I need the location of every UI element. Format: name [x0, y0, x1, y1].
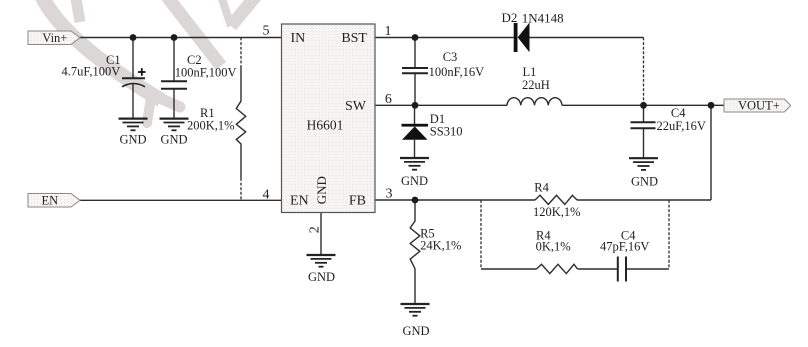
svg-text:D2: D2 [502, 10, 518, 25]
svg-text:4.7uF,100V: 4.7uF,100V [62, 65, 121, 79]
svg-text:GND: GND [631, 175, 658, 189]
svg-text:22uH: 22uH [522, 78, 550, 92]
svg-text:SW: SW [345, 99, 367, 114]
svg-text:GND: GND [160, 132, 187, 146]
svg-text:5: 5 [263, 23, 270, 38]
svg-text:FB: FB [349, 194, 366, 209]
svg-text:VOUT+: VOUT+ [738, 98, 780, 112]
svg-text:6: 6 [385, 92, 392, 107]
svg-text:GND: GND [308, 270, 335, 284]
svg-text:BST: BST [341, 31, 367, 46]
svg-text:GND: GND [401, 174, 428, 188]
svg-text:H6601: H6601 [307, 118, 344, 133]
svg-text:GND: GND [314, 176, 329, 204]
svg-text:IN: IN [291, 31, 306, 46]
svg-text:L1: L1 [523, 65, 537, 79]
svg-text:100nF,100V: 100nF,100V [175, 66, 237, 80]
svg-text:Vin+: Vin+ [42, 31, 67, 45]
svg-text:24K,1%: 24K,1% [420, 238, 461, 252]
svg-text:EN: EN [42, 193, 59, 207]
svg-text:2: 2 [308, 226, 323, 233]
svg-text:120K,1%: 120K,1% [533, 205, 581, 219]
svg-text:3: 3 [386, 186, 393, 201]
svg-text:200K,1%: 200K,1% [187, 119, 235, 133]
svg-text:4: 4 [263, 187, 270, 202]
svg-text:GND: GND [119, 132, 146, 146]
svg-text:1: 1 [385, 24, 392, 39]
svg-text:22uF,16V: 22uF,16V [657, 119, 706, 133]
svg-text:C3: C3 [443, 50, 458, 64]
svg-text:SS310: SS310 [430, 125, 463, 139]
svg-text:100nF,16V: 100nF,16V [429, 65, 485, 79]
svg-text:1N4148: 1N4148 [522, 11, 564, 26]
svg-text:0K,1%: 0K,1% [536, 240, 571, 254]
svg-text:R4: R4 [534, 181, 549, 195]
svg-text:GND: GND [402, 324, 429, 338]
svg-text:EN: EN [290, 194, 309, 209]
svg-text:47pF,16V: 47pF,16V [600, 240, 649, 254]
